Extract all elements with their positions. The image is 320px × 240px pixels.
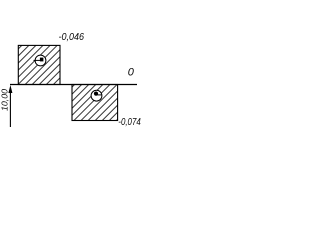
svg-text:-0,046: -0,046: [59, 32, 85, 43]
hatched square section 1 (upper left): [18, 45, 60, 84]
zero line (horizontal baseline): [10, 84, 137, 86]
svg-text:-0,074: -0,074: [118, 117, 141, 128]
centroid marker C1 (circle in upper square): [34, 55, 46, 66]
y axis arrow shaft: [9, 91, 11, 127]
centroid marker C2 (circle in lower square): [91, 90, 102, 101]
hatched square section 2 (lower right): [72, 85, 118, 121]
y axis arrowhead: [8, 85, 12, 93]
svg-text:10,00: 10,00: [0, 89, 10, 111]
svg-text:0: 0: [128, 67, 135, 79]
